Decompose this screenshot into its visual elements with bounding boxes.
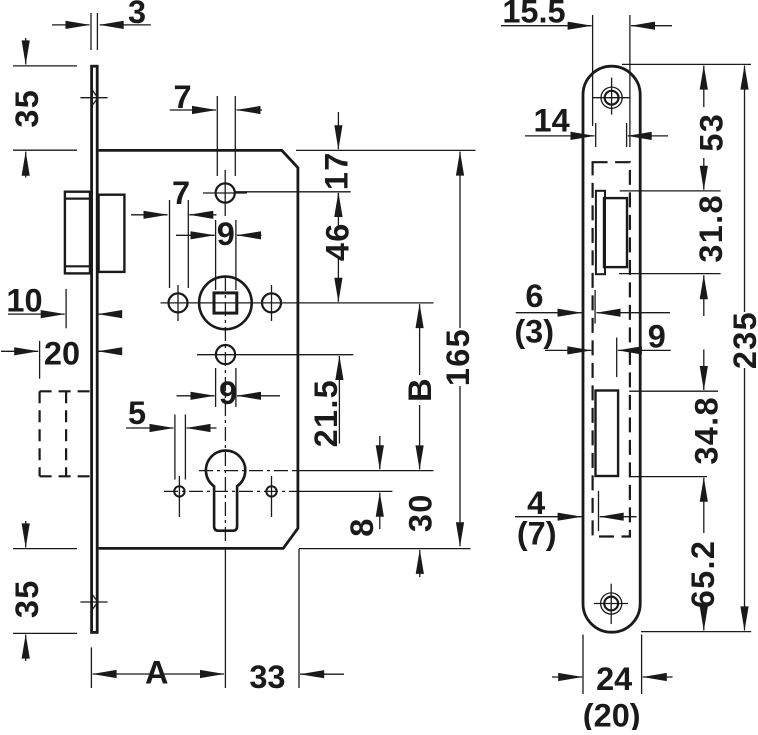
svg-text:24: 24: [596, 661, 632, 697]
dimension 6 (3): [514, 278, 670, 349]
svg-text:46: 46: [320, 222, 356, 261]
svg-text:35: 35: [9, 89, 45, 128]
svg-text:5: 5: [128, 395, 146, 431]
dimension 34.8: [689, 396, 725, 533]
svg-text:7: 7: [172, 175, 190, 211]
bottom screw hole: [594, 584, 628, 624]
svg-text:7: 7: [174, 79, 192, 115]
svg-text:3: 3: [128, 0, 146, 30]
extension lines right view: [583, 15, 751, 694]
cylinder screw holes centre line: [164, 490, 392, 492]
cylinder left screw hole: [174, 476, 184, 517]
svg-text:31.8: 31.8: [693, 194, 729, 262]
svg-text:20: 20: [44, 336, 80, 372]
svg-text:235: 235: [727, 311, 758, 369]
unlabelled gap arrow: [703, 350, 705, 391]
svg-text:9: 9: [648, 318, 666, 354]
dimension 9 right: [545, 318, 671, 354]
svg-text:A: A: [145, 655, 168, 691]
svg-text:(20): (20): [583, 697, 641, 730]
svg-text:B: B: [402, 377, 438, 402]
dashed lock case behind plate: [593, 162, 630, 536]
vertical centre line: [224, 277, 226, 688]
dimension 24 (20): [552, 661, 673, 733]
dashed deadbolt: [40, 391, 91, 476]
dimension 235: [727, 66, 758, 631]
svg-text:21.5: 21.5: [308, 379, 344, 447]
dimension 14: [525, 103, 668, 139]
svg-text:8: 8: [344, 517, 380, 536]
svg-text:9: 9: [217, 216, 235, 252]
svg-text:34.8: 34.8: [689, 396, 725, 464]
svg-text:30: 30: [403, 493, 439, 532]
middle hole centre line: [197, 354, 353, 356]
dimension 35 top: [9, 38, 45, 178]
dimension 9 middle: [176, 216, 262, 252]
dimension 15.5: [501, 0, 672, 30]
break mark top: [80, 88, 107, 108]
dimension 8: [344, 436, 380, 537]
dimension 35 bottom: [9, 521, 45, 661]
cylinder right screw hole: [266, 476, 276, 517]
svg-text:65.2: 65.2: [685, 540, 721, 608]
svg-text:17: 17: [319, 151, 355, 190]
extension lines left view: [13, 13, 476, 688]
follower centre line horizontal: [161, 302, 434, 304]
svg-text:9: 9: [219, 375, 237, 411]
latch body inside case: [99, 195, 125, 272]
svg-text:15.5: 15.5: [502, 0, 565, 30]
dimension 10: [6, 282, 117, 318]
dimension 20: [1, 336, 118, 372]
dimension 3: [52, 0, 151, 30]
svg-text:53: 53: [694, 113, 730, 152]
dimension 31.8: [693, 194, 729, 316]
dimension 9 lower: [177, 375, 281, 411]
svg-text:35: 35: [9, 579, 45, 618]
dimension A: [93, 655, 224, 691]
svg-text:33: 33: [249, 659, 285, 695]
dimension 165: [440, 152, 476, 547]
faceplate front view: [583, 66, 640, 632]
follower left screw hole: [169, 285, 188, 321]
svg-text:10: 10: [6, 282, 42, 318]
svg-text:6: 6: [525, 278, 543, 314]
dimension 33: [249, 659, 344, 695]
latch bolt head: [65, 192, 90, 274]
dimension 7 middle: [131, 175, 217, 215]
dimension 53: [694, 66, 730, 190]
latch cutout: [596, 191, 627, 274]
svg-text:(3): (3): [514, 314, 554, 350]
dimension 21.5: [308, 356, 344, 447]
break mark bottom: [80, 592, 107, 611]
top handle hole: [203, 170, 247, 216]
dimension 30: [403, 493, 439, 577]
svg-text:165: 165: [440, 328, 476, 386]
dimension 4 (7): [515, 485, 637, 552]
svg-text:(7): (7): [517, 516, 557, 552]
lock case outline: [99, 150, 298, 548]
dimension B: [402, 304, 438, 469]
dimension 65.2: [685, 540, 721, 631]
top screw hole: [592, 78, 629, 115]
middle handle hole: [216, 345, 235, 364]
faceplate side view: [92, 66, 98, 632]
follower right screw hole: [262, 285, 281, 321]
dimension 5: [126, 395, 217, 431]
dimension 46: [320, 193, 356, 302]
follower with square spindle hole: [199, 277, 252, 330]
dimension 17: [319, 112, 355, 214]
cylinder circle centre line: [199, 470, 434, 472]
dimension 7 top: [170, 79, 262, 115]
svg-text:14: 14: [534, 103, 570, 139]
deadbolt cutout: [596, 391, 619, 477]
euro profile cylinder hole: [206, 451, 245, 531]
